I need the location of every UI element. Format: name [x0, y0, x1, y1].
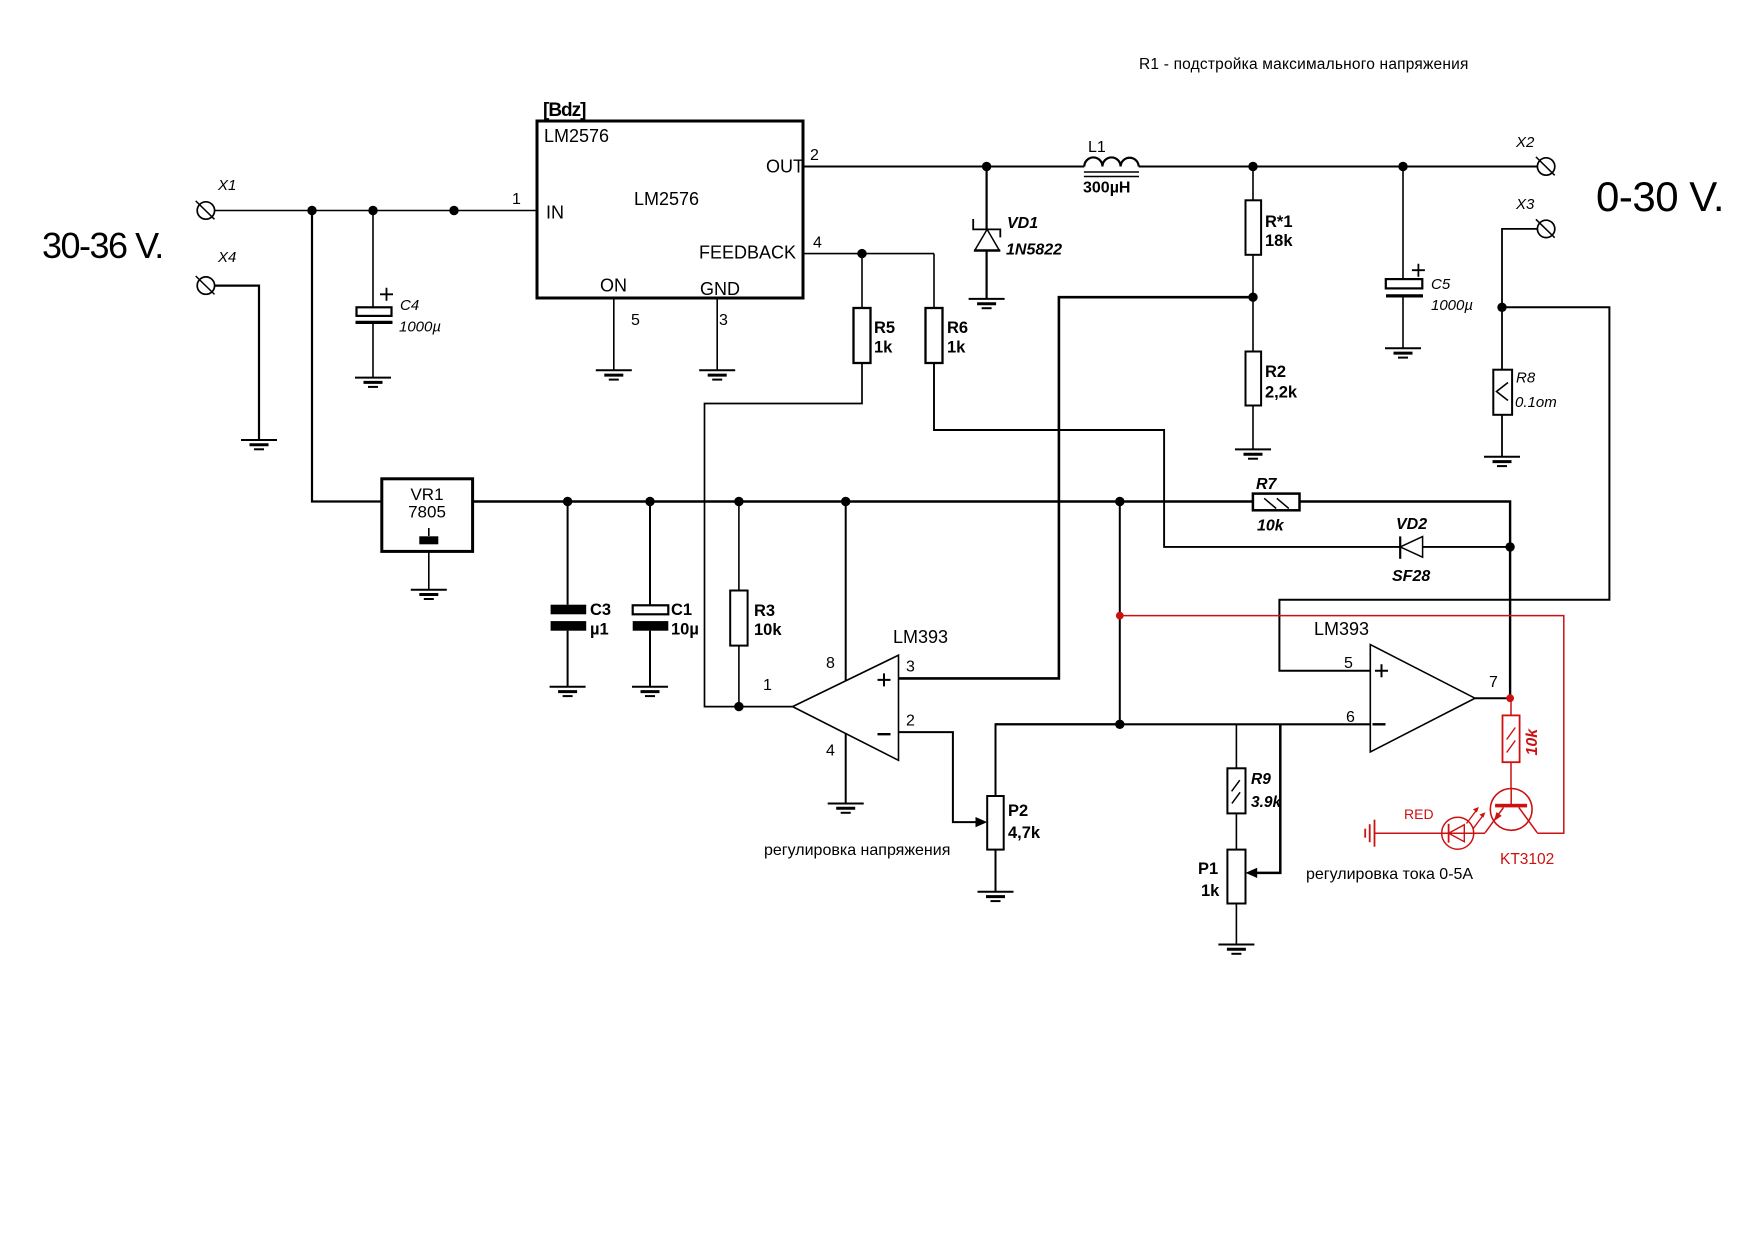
svg-text:SF28: SF28 — [1392, 568, 1430, 585]
pin 3 label — [719, 312, 728, 329]
svg-text:3: 3 — [719, 312, 728, 329]
svg-text:регулировка тока 0-5А: регулировка тока 0-5А — [1306, 866, 1473, 883]
ground under P2 — [978, 892, 1014, 901]
svg-text:FEEDBACK: FEEDBACK — [699, 243, 796, 263]
label current adjust — [1306, 866, 1473, 883]
svg-text:4: 4 — [813, 235, 822, 252]
pin 2 wire to P2 wiper — [899, 732, 978, 822]
red junction op-amp2 output — [1506, 694, 1514, 702]
junction divider node — [1248, 293, 1257, 302]
transistor Q1 KT3102 (red) — [1485, 789, 1554, 869]
ground (red, rotated) at LED — [1365, 820, 1374, 847]
capacitor C4 — [356, 211, 442, 378]
svg-text:R6: R6 — [947, 319, 968, 337]
output voltage label 0-30 V. — [1596, 173, 1724, 220]
resistor R9 — [1227, 724, 1282, 849]
svg-text:10k: 10k — [1524, 728, 1541, 756]
svg-text:1N5822: 1N5822 — [1006, 242, 1062, 259]
potentiometer P1 — [1198, 850, 1246, 945]
terminal X1 — [196, 177, 237, 219]
svg-text:30-36 V.: 30-36 V. — [42, 225, 163, 266]
svg-text:1: 1 — [763, 677, 772, 694]
inductor L1 — [1083, 139, 1139, 197]
svg-text:C1: C1 — [671, 601, 692, 619]
svg-text:R9: R9 — [1251, 771, 1271, 788]
resistor R2 — [1246, 297, 1298, 449]
svg-text:R*1: R*1 — [1265, 213, 1293, 231]
ground under P1 — [1218, 945, 1254, 954]
capacitor C3 — [551, 502, 611, 687]
svg-text:10k: 10k — [1257, 518, 1285, 535]
pin 2 label — [810, 147, 819, 164]
ground under pin 3 — [699, 370, 735, 379]
potentiometer P2 — [987, 724, 1120, 892]
label voltage adjust — [764, 842, 950, 859]
pin 8 label — [826, 655, 835, 672]
junction OUT C5 — [1398, 162, 1407, 171]
capacitor C1 — [633, 502, 699, 687]
junction on input wire — [449, 206, 458, 215]
wire pin5 ON to ground — [613, 298, 615, 370]
wire pin3 GND to ground — [716, 298, 718, 370]
wire OUT pin2 to X2 — [803, 166, 1537, 168]
wire op-amp2 output pin7 — [1475, 697, 1510, 699]
ground under C3 — [550, 687, 586, 696]
shunt resistor R8 — [1493, 307, 1556, 457]
svg-text:R8: R8 — [1516, 370, 1536, 387]
pin 3 wire to divider — [899, 297, 1254, 678]
svg-text:C3: C3 — [590, 601, 611, 619]
wire sense node to op-amp2 pin5 — [1279, 307, 1609, 670]
svg-text:3: 3 — [906, 659, 915, 676]
pin 8 wire — [845, 502, 847, 681]
svg-text:P2: P2 — [1008, 802, 1028, 820]
P2 wiper arrowhead — [976, 817, 988, 827]
svg-text:X3: X3 — [1515, 196, 1535, 213]
junction feedback R5 — [857, 249, 866, 258]
resistor R7 — [1253, 476, 1300, 535]
pin 5 label — [1344, 655, 1353, 672]
svg-text:R3: R3 — [754, 602, 775, 620]
pin 4 wire to ground — [845, 734, 847, 804]
wire input junction down to VR1 — [312, 211, 382, 502]
ground under C5 — [1385, 348, 1421, 357]
input voltage label 30-36 V. — [42, 225, 163, 266]
svg-text:0.1om: 0.1om — [1515, 394, 1557, 411]
svg-text:[Bdz]: [Bdz] — [543, 100, 586, 121]
svg-text:KT3102: KT3102 — [1500, 851, 1554, 868]
LED RED (red) — [1404, 806, 1485, 849]
pin 1 label — [512, 191, 521, 208]
svg-text:µ1: µ1 — [590, 621, 609, 639]
svg-text:2,2k: 2,2k — [1265, 384, 1298, 402]
svg-text:10k: 10k — [754, 621, 782, 639]
diode VD2 SF28 — [1392, 516, 1510, 585]
svg-text:7: 7 — [1489, 674, 1498, 691]
wire X3 to sense node — [1502, 229, 1537, 307]
svg-text:7805: 7805 — [408, 503, 446, 522]
resistor R6 — [926, 254, 969, 363]
wire X1 to IN pin — [215, 210, 537, 212]
resistor 10k (red, base) — [1503, 698, 1542, 789]
pin 3 label — [906, 659, 915, 676]
svg-text:R2: R2 — [1265, 363, 1286, 381]
pin 5 label — [631, 312, 640, 329]
svg-text:6: 6 — [1346, 709, 1355, 726]
red wire LED to ground — [1375, 832, 1442, 834]
svg-text:5: 5 — [631, 312, 640, 329]
svg-text:X4: X4 — [217, 249, 236, 266]
wire VR1 to ground — [428, 551, 430, 589]
svg-text:LM393: LM393 — [893, 627, 948, 647]
capacitor C5 — [1386, 167, 1473, 349]
svg-text:R5: R5 — [874, 319, 895, 337]
svg-text:L1: L1 — [1088, 139, 1106, 156]
terminal X3 — [1515, 196, 1555, 238]
ground under VD1 — [969, 299, 1005, 308]
svg-text:LM393: LM393 — [1314, 619, 1369, 639]
svg-text:C4: C4 — [400, 297, 419, 314]
svg-text:1: 1 — [512, 191, 521, 208]
pin 6 label — [1346, 709, 1355, 726]
+5V bus wire VR1 output — [473, 500, 1253, 503]
junction inverting bus — [1115, 720, 1124, 729]
svg-text:8: 8 — [826, 655, 835, 672]
ground under op-amp pin4 — [828, 804, 864, 813]
ground under C4 — [355, 378, 391, 387]
pin 7 label — [1489, 674, 1498, 691]
svg-text:X1: X1 — [217, 177, 236, 194]
svg-text:4: 4 — [826, 743, 835, 760]
svg-text:LM2576: LM2576 — [544, 126, 609, 146]
wire bus branch down to inverting bus — [1119, 502, 1121, 725]
ground under X4 — [241, 440, 277, 449]
junction bus current-set branch — [1115, 497, 1124, 506]
junction on input wire (C4 branch) — [368, 206, 377, 215]
wire R6 bottom to VD2 — [934, 362, 1400, 547]
ground under VR1 — [411, 590, 447, 599]
junction bus C1 — [645, 497, 654, 506]
wire inverting input bus — [996, 723, 1371, 725]
ground under C1 — [632, 687, 668, 696]
svg-text:1k: 1k — [947, 339, 966, 357]
junction R3 pin1 — [734, 702, 743, 711]
svg-text:R1 - подстройка максимального: R1 - подстройка максимального напряжения — [1139, 56, 1469, 73]
wire X4 to ground — [215, 286, 259, 440]
svg-text:VD2: VD2 — [1396, 516, 1427, 533]
regulator VR1 7805 — [382, 479, 473, 552]
diode VD1 1N5822 — [973, 167, 1062, 299]
svg-text:VD1: VD1 — [1007, 215, 1038, 232]
svg-text:4,7k: 4,7k — [1008, 824, 1041, 842]
svg-text:1k: 1k — [1201, 882, 1220, 900]
svg-text:GND: GND — [700, 279, 740, 299]
op-amp U2B LM393 (right) — [1314, 619, 1475, 752]
junction bus C3 — [563, 497, 572, 506]
ground under R8 — [1484, 457, 1520, 466]
wire VD2 node down to op-amp2 output — [1509, 547, 1511, 698]
junction OUT VD1 — [982, 162, 991, 171]
terminal X4 — [196, 249, 237, 294]
svg-text:VR1: VR1 — [410, 485, 443, 504]
svg-text:RED: RED — [1404, 806, 1434, 822]
+5V bus wire after R7 — [1300, 502, 1511, 547]
svg-text:ON: ON — [600, 276, 627, 296]
svg-text:регулировка напряжения: регулировка напряжения — [764, 842, 950, 859]
svg-text:IN: IN — [546, 203, 564, 223]
note R1 adjustment text — [1139, 56, 1469, 73]
svg-text:R7: R7 — [1256, 476, 1278, 493]
P1 wiper arrowhead — [1246, 868, 1258, 878]
junction on input wire (VR1 branch) — [307, 206, 316, 215]
resistor R5 — [854, 254, 896, 363]
svg-text:18k: 18k — [1265, 232, 1293, 250]
pin 4 label — [813, 235, 822, 252]
pin 4 label — [826, 743, 835, 760]
svg-text:P1: P1 — [1198, 860, 1218, 878]
wire R5 bottom to op-amp pin1 — [705, 362, 863, 707]
junction VD2 output node — [1505, 542, 1514, 551]
red wire supply to emitter network — [1120, 616, 1564, 834]
wire pin6 branch to P1 wiper — [1256, 724, 1280, 873]
svg-text:5: 5 — [1344, 655, 1353, 672]
IC U1 LM2576 box — [537, 100, 804, 299]
svg-text:X2: X2 — [1515, 134, 1535, 151]
svg-text:LM2576: LM2576 — [634, 189, 699, 209]
svg-text:10µ: 10µ — [671, 621, 699, 639]
terminal X2 — [1515, 134, 1555, 175]
junction OUT divider — [1248, 162, 1257, 171]
svg-text:1k: 1k — [874, 339, 893, 357]
junction bus R3 — [734, 497, 743, 506]
junction sense node — [1497, 303, 1506, 312]
svg-text:3.9k: 3.9k — [1251, 794, 1283, 811]
svg-text:2: 2 — [906, 713, 915, 730]
resistor R3 — [730, 502, 782, 707]
red node on +5V branch — [1116, 612, 1124, 620]
svg-text:300µH: 300µH — [1083, 180, 1130, 197]
svg-text:1000µ: 1000µ — [1431, 297, 1473, 314]
ground under R2 — [1235, 449, 1271, 458]
pin 2 label — [906, 713, 915, 730]
junction bus pin8 — [841, 497, 850, 506]
svg-text:1000µ: 1000µ — [399, 319, 441, 336]
resistor R*1 — [1246, 167, 1294, 298]
svg-text:C5: C5 — [1431, 276, 1451, 293]
pin 1 label — [763, 677, 772, 694]
wire FEEDBACK pin4 to R5 R6 — [803, 253, 934, 255]
svg-text:OUT: OUT — [766, 157, 804, 177]
svg-text:2: 2 — [810, 147, 819, 164]
op-amp U2A LM393 (left, mirrored) — [793, 627, 948, 760]
ground under pin 5 — [596, 370, 632, 379]
svg-text:0-30 V.: 0-30 V. — [1596, 173, 1724, 220]
